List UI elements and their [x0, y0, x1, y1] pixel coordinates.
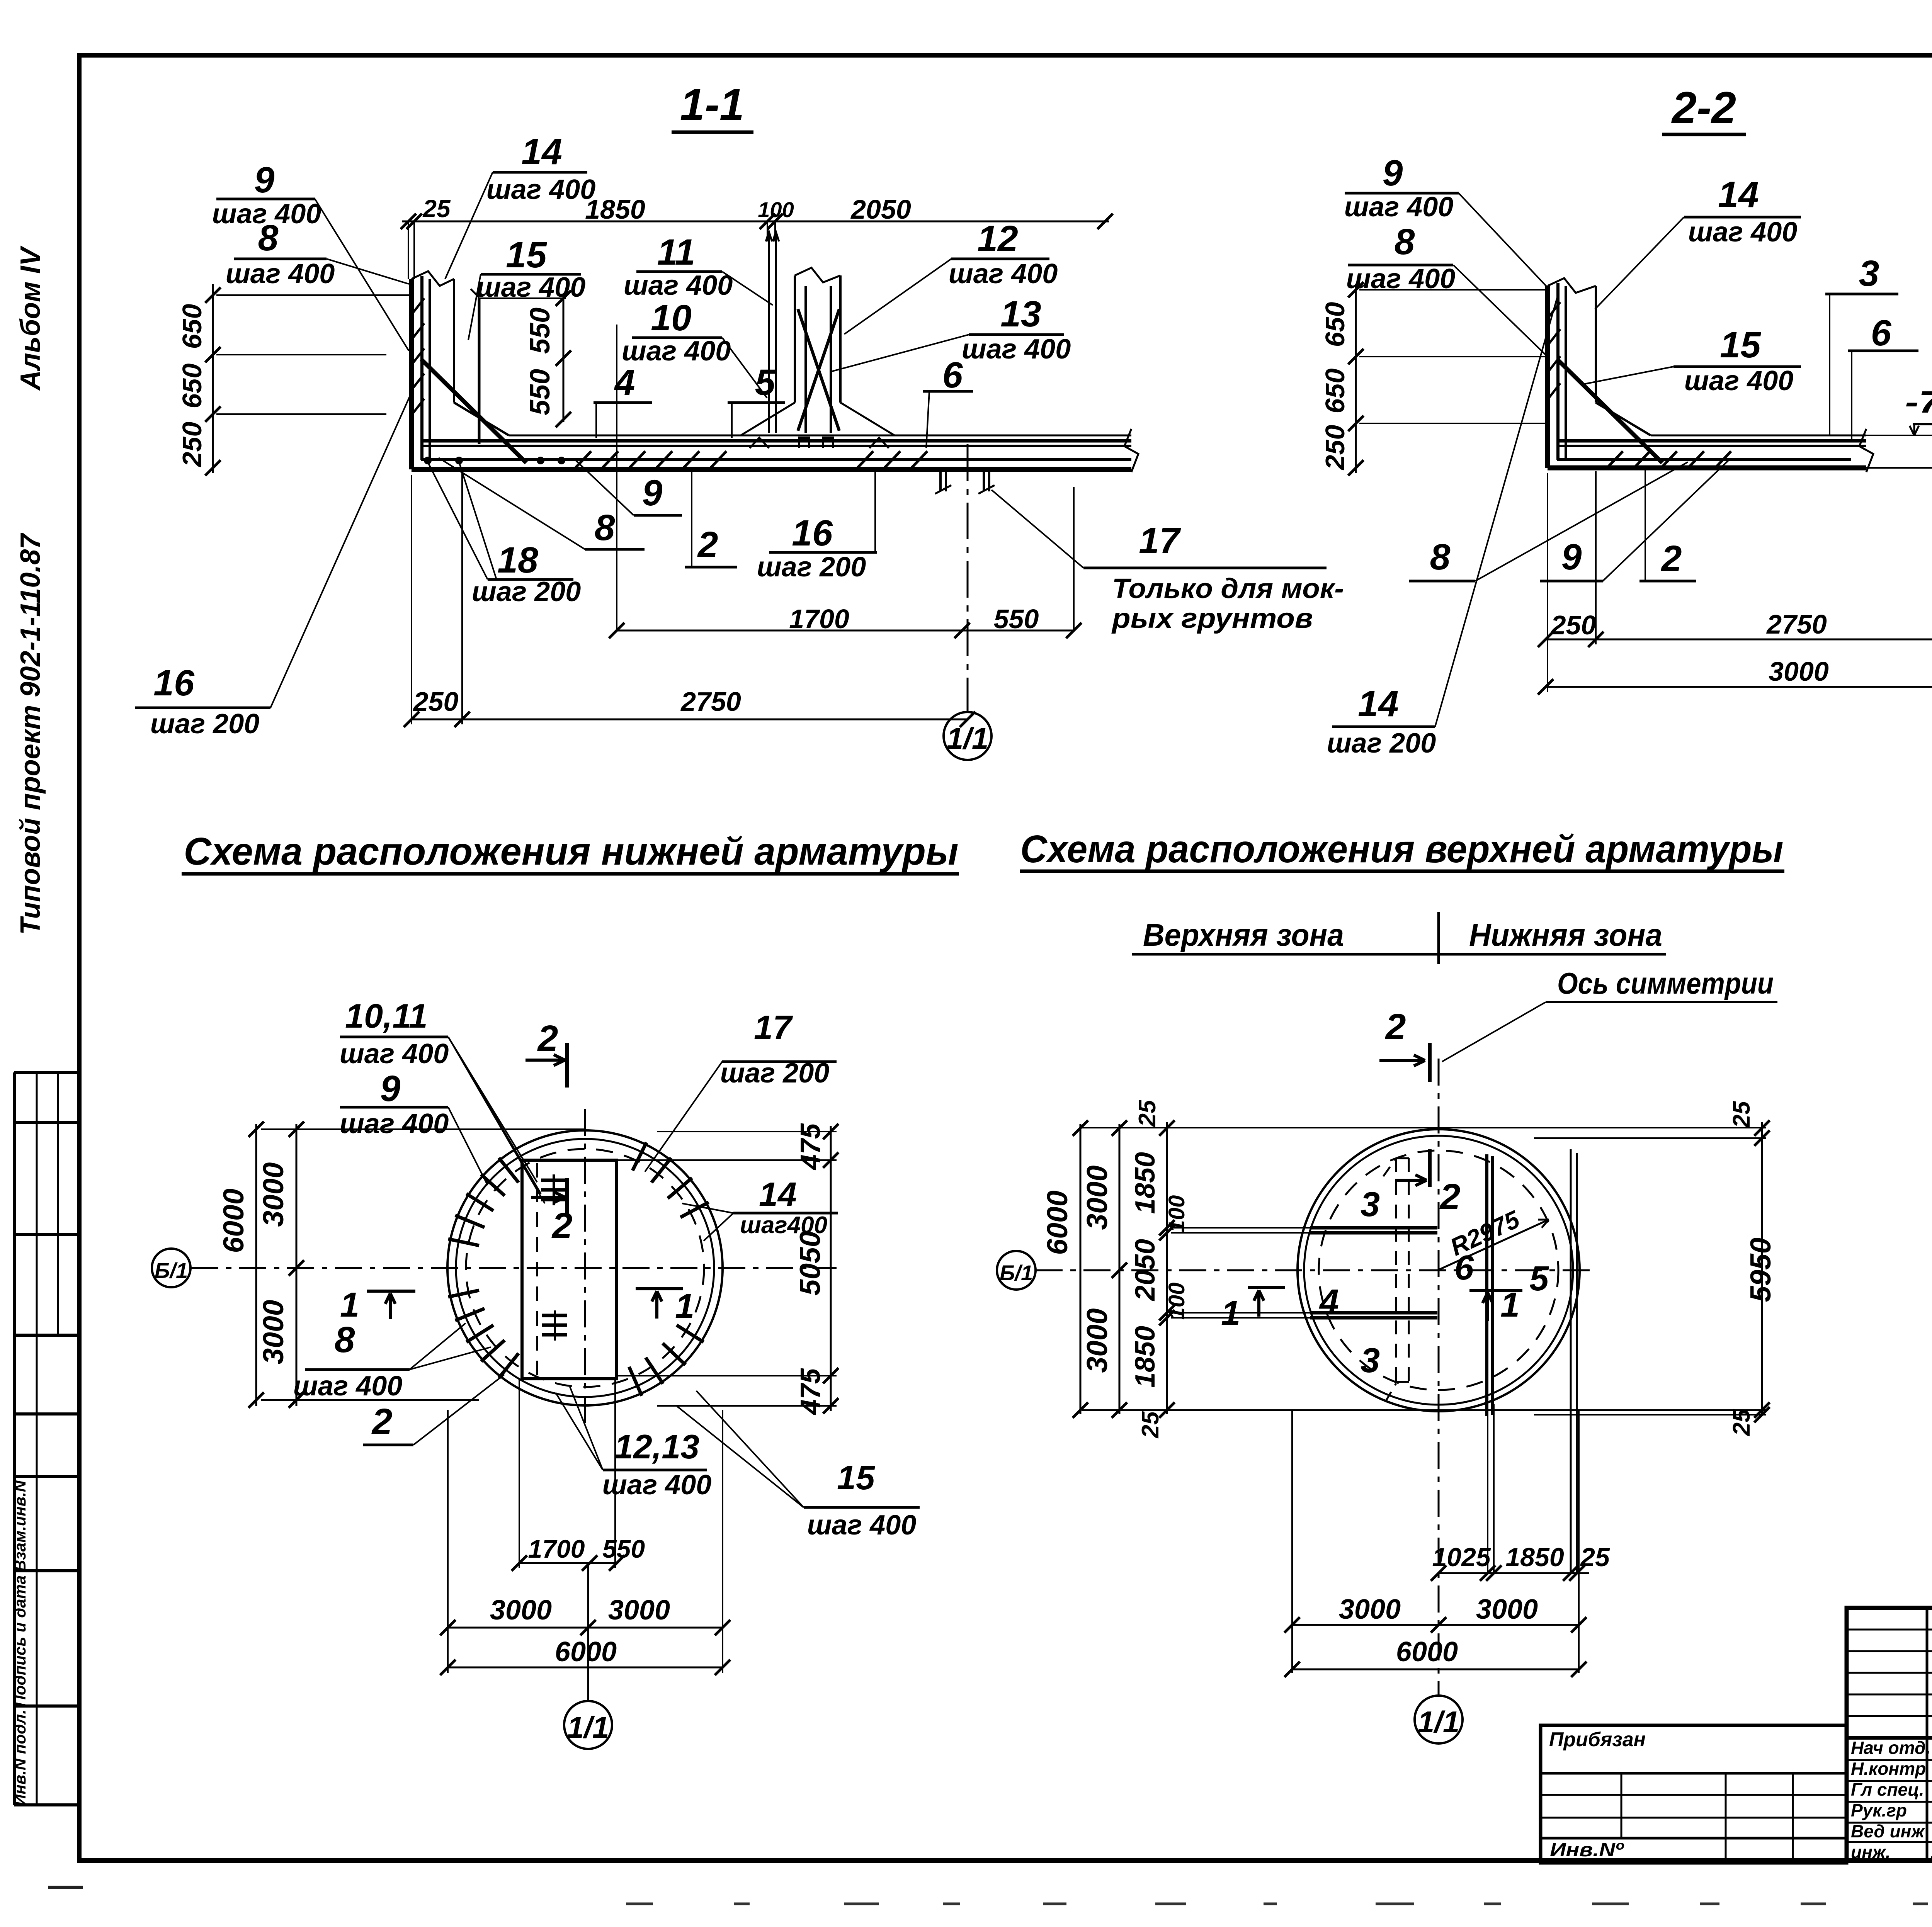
svg-text:Н.контр: Н.контр — [1851, 1759, 1926, 1779]
svg-text:3000: 3000 — [1339, 1594, 1401, 1625]
svg-text:100: 100 — [1164, 1283, 1189, 1320]
svg-text:5: 5 — [755, 362, 776, 403]
svg-text:9: 9 — [1383, 153, 1403, 194]
svg-text:25: 25 — [1137, 1411, 1164, 1438]
svg-text:550: 550 — [525, 308, 556, 354]
svg-text:4: 4 — [614, 362, 635, 403]
svg-text:шаг 400: шаг 400 — [1688, 217, 1798, 248]
svg-text:Подпись и дата: Подпись и дата — [11, 1575, 29, 1707]
svg-text:250: 250 — [1320, 425, 1350, 471]
svg-text:шаг 400: шаг 400 — [962, 334, 1071, 365]
svg-text:6: 6 — [942, 355, 963, 396]
svg-text:шаг 400: шаг 400 — [486, 174, 596, 205]
svg-text:2: 2 — [1661, 538, 1682, 579]
svg-text:2-2: 2-2 — [1671, 83, 1736, 133]
svg-text:шаг 400: шаг 400 — [624, 270, 733, 301]
svg-text:Типовой проект 902-1-110.87: Типовой проект 902-1-110.87 — [15, 533, 46, 935]
svg-text:Только для мок-: Только для мок- — [1112, 573, 1344, 604]
svg-text:Ось симметрии: Ось симметрии — [1557, 966, 1774, 1000]
svg-text:17: 17 — [754, 1008, 793, 1047]
svg-text:25: 25 — [1134, 1099, 1161, 1127]
svg-text:18: 18 — [497, 540, 538, 581]
svg-text:6000: 6000 — [555, 1636, 617, 1667]
svg-text:650: 650 — [1320, 302, 1350, 347]
svg-text:550: 550 — [525, 369, 556, 415]
svg-text:шаг 200: шаг 200 — [1327, 728, 1436, 759]
svg-text:12: 12 — [977, 218, 1018, 259]
svg-text:Нач отд.: Нач отд. — [1851, 1738, 1930, 1758]
svg-text:Рук.гр: Рук.гр — [1851, 1800, 1907, 1820]
svg-text:5: 5 — [1529, 1259, 1549, 1298]
svg-text:Альбом IV: Альбом IV — [15, 245, 46, 391]
svg-text:25: 25 — [422, 195, 451, 223]
svg-text:8: 8 — [258, 218, 279, 258]
svg-text:100: 100 — [1164, 1195, 1189, 1233]
svg-text:1850: 1850 — [1505, 1543, 1564, 1572]
svg-text:3000: 3000 — [1769, 656, 1829, 687]
svg-text:шаг400: шаг400 — [740, 1212, 827, 1239]
svg-text:шаг 400: шаг 400 — [1344, 192, 1454, 223]
svg-text:1: 1 — [675, 1287, 694, 1326]
svg-text:Схема расположения нижней арма: Схема расположения нижней арматуры — [184, 830, 959, 873]
svg-text:Инв.Nº: Инв.Nº — [1550, 1839, 1624, 1861]
svg-text:шаг 400: шаг 400 — [949, 258, 1058, 289]
svg-text:10: 10 — [651, 297, 692, 338]
svg-text:шаг 400: шаг 400 — [1684, 365, 1794, 396]
svg-text:6: 6 — [1871, 313, 1892, 353]
svg-text:16: 16 — [153, 663, 195, 704]
svg-text:шаг 400: шаг 400 — [340, 1038, 449, 1069]
svg-text:25: 25 — [1580, 1543, 1610, 1572]
svg-text:1: 1 — [340, 1286, 359, 1324]
svg-text:шаг 400: шаг 400 — [226, 258, 335, 289]
svg-text:шаг 200: шаг 200 — [150, 709, 260, 739]
svg-text:Инв.N подл.: Инв.N подл. — [11, 1709, 29, 1806]
svg-text:3000: 3000 — [490, 1595, 552, 1626]
svg-text:14: 14 — [759, 1175, 797, 1213]
svg-text:инж.: инж. — [1851, 1842, 1891, 1862]
svg-text:1700: 1700 — [789, 604, 849, 634]
svg-text:шаг 400: шаг 400 — [602, 1470, 712, 1500]
svg-text:3: 3 — [1859, 253, 1879, 294]
svg-text:8: 8 — [1395, 221, 1415, 262]
svg-text:11: 11 — [657, 232, 696, 273]
svg-text:6000: 6000 — [1041, 1191, 1073, 1255]
svg-text:14: 14 — [521, 131, 562, 172]
svg-text:2750: 2750 — [680, 687, 741, 717]
svg-text:шаг 400: шаг 400 — [1346, 263, 1456, 294]
svg-text:14: 14 — [1718, 174, 1759, 215]
svg-text:8: 8 — [1430, 537, 1451, 578]
svg-text:2: 2 — [537, 1018, 558, 1059]
svg-text:14: 14 — [1358, 683, 1399, 724]
svg-text:13: 13 — [1000, 294, 1041, 335]
svg-text:рых грунтов: рых грунтов — [1111, 603, 1313, 634]
svg-text:2050: 2050 — [1130, 1239, 1161, 1302]
svg-text:2: 2 — [697, 524, 718, 565]
svg-text:2: 2 — [1439, 1176, 1461, 1217]
svg-text:шаг 400: шаг 400 — [622, 336, 731, 367]
svg-text:550: 550 — [994, 604, 1039, 634]
svg-text:1850: 1850 — [1130, 1326, 1161, 1388]
svg-text:9: 9 — [642, 472, 663, 513]
svg-text:3: 3 — [1361, 1341, 1380, 1380]
svg-text:17: 17 — [1139, 520, 1181, 561]
svg-text:1/1: 1/1 — [1418, 1705, 1459, 1739]
svg-text:2: 2 — [371, 1401, 393, 1442]
svg-text:8: 8 — [335, 1319, 355, 1360]
svg-text:1025: 1025 — [1432, 1543, 1491, 1572]
svg-text:3000: 3000 — [1081, 1308, 1113, 1373]
svg-text:1/1: 1/1 — [567, 1710, 609, 1744]
svg-text:550: 550 — [602, 1534, 645, 1563]
svg-text:9: 9 — [380, 1068, 401, 1109]
svg-text:3000: 3000 — [257, 1162, 289, 1227]
svg-text:Б/1: Б/1 — [155, 1258, 188, 1283]
svg-text:6000: 6000 — [1396, 1636, 1458, 1667]
svg-text:4: 4 — [1319, 1283, 1339, 1321]
svg-text:3000: 3000 — [1476, 1594, 1538, 1625]
svg-text:5050: 5050 — [794, 1231, 826, 1296]
svg-text:Прибязан: Прибязан — [1549, 1728, 1646, 1751]
svg-text:12,13: 12,13 — [614, 1427, 699, 1466]
svg-text:250: 250 — [1550, 610, 1596, 640]
svg-text:шаг 400: шаг 400 — [293, 1371, 403, 1402]
svg-text:650: 650 — [177, 304, 207, 349]
svg-text:15: 15 — [506, 235, 547, 275]
svg-text:-7,500: -7,500 — [1905, 385, 1932, 419]
svg-text:250: 250 — [177, 422, 207, 468]
svg-text:шаг 200: шаг 200 — [472, 576, 581, 607]
svg-text:2750: 2750 — [1766, 609, 1827, 639]
svg-text:Нижняя зона: Нижняя зона — [1469, 918, 1662, 953]
svg-text:1-1: 1-1 — [680, 80, 744, 129]
svg-text:Гл спец.: Гл спец. — [1851, 1779, 1924, 1800]
svg-text:3000: 3000 — [608, 1595, 670, 1626]
svg-text:шаг 200: шаг 200 — [720, 1058, 830, 1089]
svg-text:1/1: 1/1 — [947, 721, 988, 755]
svg-text:Вед инж: Вед инж — [1851, 1821, 1925, 1841]
svg-text:6000: 6000 — [217, 1189, 250, 1253]
svg-text:8: 8 — [595, 507, 615, 548]
svg-text:3: 3 — [1361, 1185, 1380, 1224]
svg-text:3000: 3000 — [1081, 1166, 1113, 1230]
svg-text:475: 475 — [795, 1123, 826, 1171]
svg-text:2: 2 — [1385, 1006, 1406, 1047]
svg-text:3000: 3000 — [257, 1300, 289, 1365]
svg-text:100: 100 — [758, 197, 794, 222]
svg-text:25: 25 — [1728, 1101, 1755, 1128]
svg-text:шаг 400: шаг 400 — [807, 1510, 917, 1541]
svg-text:15: 15 — [1720, 325, 1761, 365]
svg-text:9: 9 — [1561, 537, 1582, 578]
svg-text:15: 15 — [837, 1458, 875, 1497]
svg-text:2050: 2050 — [850, 194, 911, 224]
svg-text:шаг 200: шаг 200 — [757, 552, 866, 583]
svg-text:шаг 400: шаг 400 — [476, 272, 586, 303]
svg-text:6: 6 — [1454, 1249, 1474, 1287]
svg-text:1700: 1700 — [528, 1534, 585, 1563]
svg-text:650: 650 — [1320, 369, 1350, 414]
svg-text:25: 25 — [1728, 1409, 1755, 1436]
svg-text:650: 650 — [177, 364, 207, 409]
svg-text:Б/1: Б/1 — [1000, 1261, 1033, 1285]
svg-text:Верхняя зона: Верхняя зона — [1143, 918, 1344, 953]
svg-text:9: 9 — [254, 160, 275, 201]
svg-text:Схема расположения верхней арм: Схема расположения верхней арматуры — [1020, 828, 1784, 871]
svg-text:Взам.инв.N: Взам.инв.N — [11, 1480, 29, 1572]
svg-text:2: 2 — [551, 1205, 573, 1246]
svg-text:250: 250 — [413, 687, 459, 717]
svg-text:шаг 400: шаг 400 — [340, 1108, 449, 1139]
svg-text:10,11: 10,11 — [345, 997, 428, 1035]
svg-text:5950: 5950 — [1744, 1238, 1777, 1302]
svg-text:16: 16 — [792, 513, 833, 554]
svg-text:1850: 1850 — [1130, 1152, 1161, 1214]
